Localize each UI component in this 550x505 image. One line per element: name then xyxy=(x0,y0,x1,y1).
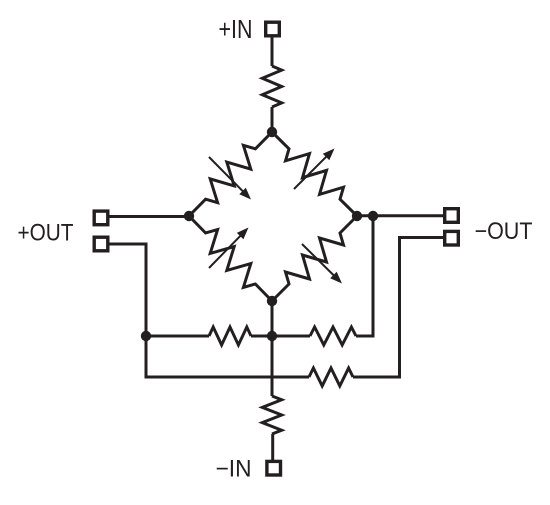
wire second row right end xyxy=(353,376,401,379)
wire right node to -OUT top xyxy=(357,214,444,217)
resistor R2 (first row left) xyxy=(209,327,251,345)
arrow of RG4 xyxy=(302,244,335,277)
strain gauge resistor RG3 (bottom-left arm) xyxy=(189,216,272,301)
svg-text:−IN: −IN xyxy=(216,456,252,483)
wire bottom node down xyxy=(271,301,274,396)
resistor R5 (bottom, -IN leg) xyxy=(262,396,281,434)
wire R3 to center node xyxy=(272,335,310,338)
wire center node to R2 xyxy=(251,335,272,338)
junction dot left node xyxy=(184,211,194,221)
junction dot J1 xyxy=(368,211,378,221)
resistor R4 (second row) xyxy=(309,368,353,386)
junction dot top node xyxy=(267,127,277,137)
wire J1 riser xyxy=(372,216,375,338)
resistor R1 (top, +IN leg) xyxy=(262,66,281,107)
svg-text:−OUT: −OUT xyxy=(475,218,533,245)
wire right outer riser xyxy=(398,236,401,379)
terminal square +IN xyxy=(266,22,280,36)
wire second row left xyxy=(146,376,309,379)
arrow of RG3 xyxy=(209,235,242,268)
terminal square +OUT top xyxy=(94,211,108,225)
arrow of RG2 xyxy=(294,156,327,189)
strain gauge resistor RG4 (bottom-right arm) xyxy=(272,216,357,301)
wire +OUT top to left node xyxy=(108,215,189,218)
wire R1 to top node xyxy=(271,107,274,132)
wire first row right end xyxy=(356,335,375,338)
resistor R3 (first row right) xyxy=(310,327,356,345)
wire +OUT bottom to left riser xyxy=(108,243,148,246)
junction dot first row left xyxy=(141,331,151,341)
wire R5 to -IN terminal xyxy=(271,434,274,461)
terminal square -IN xyxy=(267,461,281,475)
junction dot first row center xyxy=(267,331,277,341)
arrow of RG1 xyxy=(209,157,244,192)
junction dot right node xyxy=(352,211,362,221)
terminal square -OUT bottom xyxy=(445,231,459,245)
svg-text:+IN: +IN xyxy=(219,16,253,44)
terminal square -OUT top xyxy=(445,209,459,223)
strain gauge resistor RG1 (top-left arm) xyxy=(189,132,272,216)
svg-text:+OUT: +OUT xyxy=(18,220,74,247)
terminal square +OUT bottom xyxy=(94,237,108,251)
wire left riser xyxy=(145,243,148,379)
wire +IN to R1 xyxy=(271,37,274,66)
junction dot bottom node xyxy=(267,296,277,306)
wire -OUT bottom to right riser xyxy=(398,236,444,239)
wire R2 to left node xyxy=(146,335,209,338)
strain gauge resistor RG2 (top-right arm) xyxy=(272,132,357,216)
